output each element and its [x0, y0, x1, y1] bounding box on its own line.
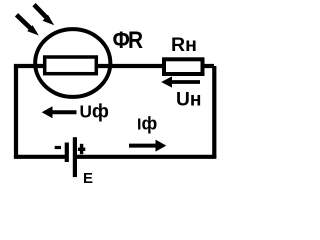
svg-text:Iф: Iф: [137, 114, 157, 134]
wire: top horizontal: [14, 64, 214, 68]
battery E: long plate (positive): [73, 137, 77, 177]
wire: right vertical: [212, 66, 216, 157]
photoresistor FR: resistor body: [45, 57, 97, 74]
wire: bottom right segment: [75, 155, 216, 159]
battery plus sign: [78, 144, 85, 154]
arrow If (pointing right): [129, 140, 166, 152]
arrow Uf (voltage across photoresistor, pointing left): [42, 106, 77, 118]
svg-text:Uн: Uн: [176, 90, 201, 111]
svg-text:ΦR: ΦR: [113, 27, 143, 54]
battery minus sign: [55, 146, 61, 149]
light arrow 2: [34, 5, 54, 26]
wire: bottom left segment: [14, 155, 66, 159]
svg-text:E: E: [83, 170, 93, 187]
svg-text:Uф: Uф: [80, 101, 109, 123]
svg-text:Rн: Rн: [171, 34, 197, 56]
battery E: short plate (negative): [65, 143, 69, 163]
photoresistor FR: envelope circle: [35, 29, 110, 97]
arrow Un (voltage across load, pointing left): [161, 76, 200, 87]
light arrow 1: [17, 15, 39, 36]
resistor Rn (load): [164, 59, 203, 74]
wire: left vertical: [14, 66, 18, 157]
